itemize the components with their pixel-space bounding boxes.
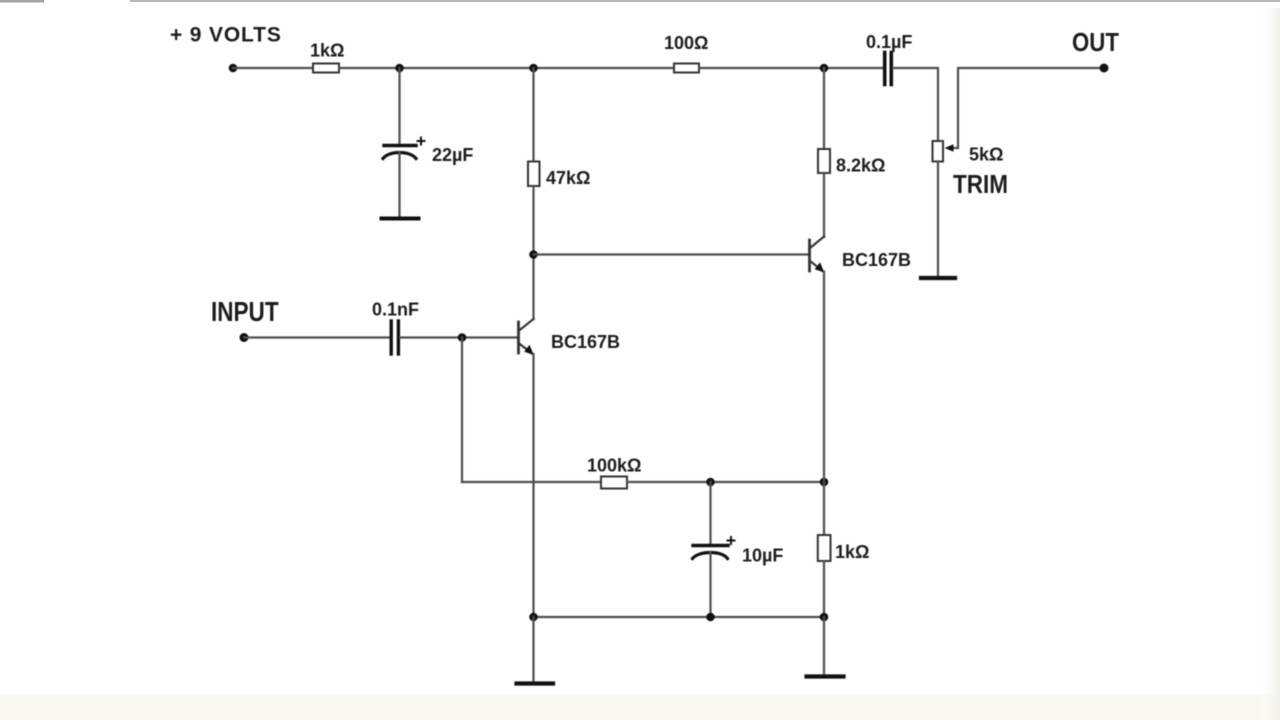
wire 10uF top lead xyxy=(709,482,711,545)
label TRIM xyxy=(953,171,1008,200)
node top rail / 47k xyxy=(529,64,538,73)
node bottom rail / 10uF xyxy=(706,613,715,622)
capacitor C 10uF (polarized) xyxy=(693,546,729,559)
trimmer wiper arrow xyxy=(945,144,959,152)
wire 0.1nF to base node xyxy=(400,336,518,338)
label 0.1uF xyxy=(866,32,912,52)
capacitor C 0.1nF xyxy=(391,321,398,354)
label 47k ohm xyxy=(546,168,590,188)
wire 1k bottom lead xyxy=(823,561,825,617)
svg-text:1kΩ: 1kΩ xyxy=(310,41,344,61)
label 1k ohm xyxy=(310,41,344,61)
svg-text:+ 9 VOLTS: + 9 VOLTS xyxy=(170,24,282,47)
svg-text:47kΩ: 47kΩ xyxy=(546,168,590,188)
ground (right) xyxy=(807,674,844,678)
resistor R 100k xyxy=(601,477,627,489)
wire 0.1uF to trimmer top xyxy=(893,68,938,141)
node top rail / 22uF xyxy=(395,64,404,73)
resistor R 47k xyxy=(528,162,540,187)
wire 10uF bottom lead xyxy=(709,552,711,617)
wire 47k top lead xyxy=(532,68,534,161)
label 8.2k ohm xyxy=(836,156,885,176)
label OUT xyxy=(1072,28,1119,57)
label BC167B (Q1) xyxy=(551,332,620,352)
label INPUT xyxy=(211,297,279,328)
resistor R 1k (emitter) xyxy=(818,535,831,561)
node bottom rail right xyxy=(820,613,829,622)
node bottom rail left xyxy=(529,613,538,622)
wire R100k to Q2 emitter branch xyxy=(627,481,824,483)
wire left ground lead xyxy=(532,617,534,682)
plus mark of 10uF xyxy=(728,537,735,544)
svg-text:BC167B: BC167B xyxy=(842,250,911,270)
wire top rail R 100ohm to C 0.1uF xyxy=(699,67,884,69)
wire wiper up to OUT rail xyxy=(958,68,1104,148)
node base of Q1 / feedback xyxy=(458,333,467,342)
svg-text:0.1µF: 0.1µF xyxy=(866,32,912,52)
wire Q2 emitter to 1k xyxy=(823,482,825,535)
node INPUT terminal xyxy=(240,333,249,342)
svg-text:TRIM: TRIM xyxy=(953,171,1008,200)
svg-text:100kΩ: 100kΩ xyxy=(587,456,641,476)
svg-text:8.2kΩ: 8.2kΩ xyxy=(836,156,885,176)
wire INPUT to C 0.1nF xyxy=(244,336,390,338)
wire feedback node down xyxy=(461,338,463,483)
svg-text:1kΩ: 1kΩ xyxy=(835,542,869,562)
svg-text:0.1nF: 0.1nF xyxy=(372,300,419,320)
svg-text:BC167B: BC167B xyxy=(551,332,620,352)
label 100k ohm xyxy=(587,456,641,476)
label 0.1nF xyxy=(372,300,419,320)
label +9 VOLTS xyxy=(170,24,282,47)
node 100k / 10uF xyxy=(706,478,715,487)
wire 22uF bottom lead xyxy=(398,152,400,217)
capacitor C 22uF (polarized) xyxy=(383,146,416,159)
ground (trimmer) xyxy=(921,276,955,280)
node top rail / 8.2k xyxy=(820,64,829,73)
label BC167B (Q2) xyxy=(842,250,911,270)
resistor R 100 ohm (top rail) xyxy=(674,64,699,73)
resistor R 8.2k xyxy=(818,149,830,173)
potentiometer R 5k TRIM body xyxy=(933,141,944,162)
wire Q1 emitter down (crosses feedback wire) xyxy=(532,354,534,617)
wire +9V terminal to R1 xyxy=(233,67,313,69)
wire 8.2k bottom to Q2 collector xyxy=(823,173,825,237)
wire Q2 emitter down to node xyxy=(823,272,825,483)
label 5k ohm xyxy=(969,145,1003,165)
wire bottom rail xyxy=(534,616,825,618)
wire 22uF top lead xyxy=(398,68,400,145)
capacitor C 0.1uF (output) xyxy=(885,53,892,85)
wire 47k bottom to Q1 collector xyxy=(532,186,534,319)
transistor Q1 BC167B xyxy=(519,319,534,355)
ground terminal bar of 22uF xyxy=(382,217,419,221)
svg-text:OUT: OUT xyxy=(1072,28,1119,57)
node Q1 collector / Q2 base wire xyxy=(529,250,538,259)
ground (left) xyxy=(517,681,554,685)
resistor R 1k (top rail) xyxy=(313,64,339,73)
wire trimmer bottom lead xyxy=(937,162,939,278)
label 100 ohm xyxy=(664,33,708,53)
wire 8.2k top lead xyxy=(823,68,825,149)
label 1k ohm (emitter) xyxy=(835,542,869,562)
transistor Q2 BC167B xyxy=(810,237,825,273)
wire right ground lead xyxy=(823,617,825,675)
plus mark of 22uF xyxy=(418,138,425,145)
wire Q1-collector-node to Q2 base xyxy=(534,253,810,255)
label 22uF xyxy=(432,145,473,165)
wire top rail R1 to R 100ohm xyxy=(339,67,674,69)
label 10uF xyxy=(742,546,783,566)
svg-text:100Ω: 100Ω xyxy=(664,33,708,53)
svg-text:22µF: 22µF xyxy=(432,145,473,165)
node +9V terminal xyxy=(229,64,238,73)
svg-text:10µF: 10µF xyxy=(742,546,783,566)
svg-text:INPUT: INPUT xyxy=(211,297,279,328)
node OUT terminal xyxy=(1100,64,1109,73)
wire feedback bottom horizontal to R 100k xyxy=(462,481,601,483)
svg-text:5kΩ: 5kΩ xyxy=(969,145,1003,165)
node 100k / Q2 emitter / 1k xyxy=(820,478,829,487)
